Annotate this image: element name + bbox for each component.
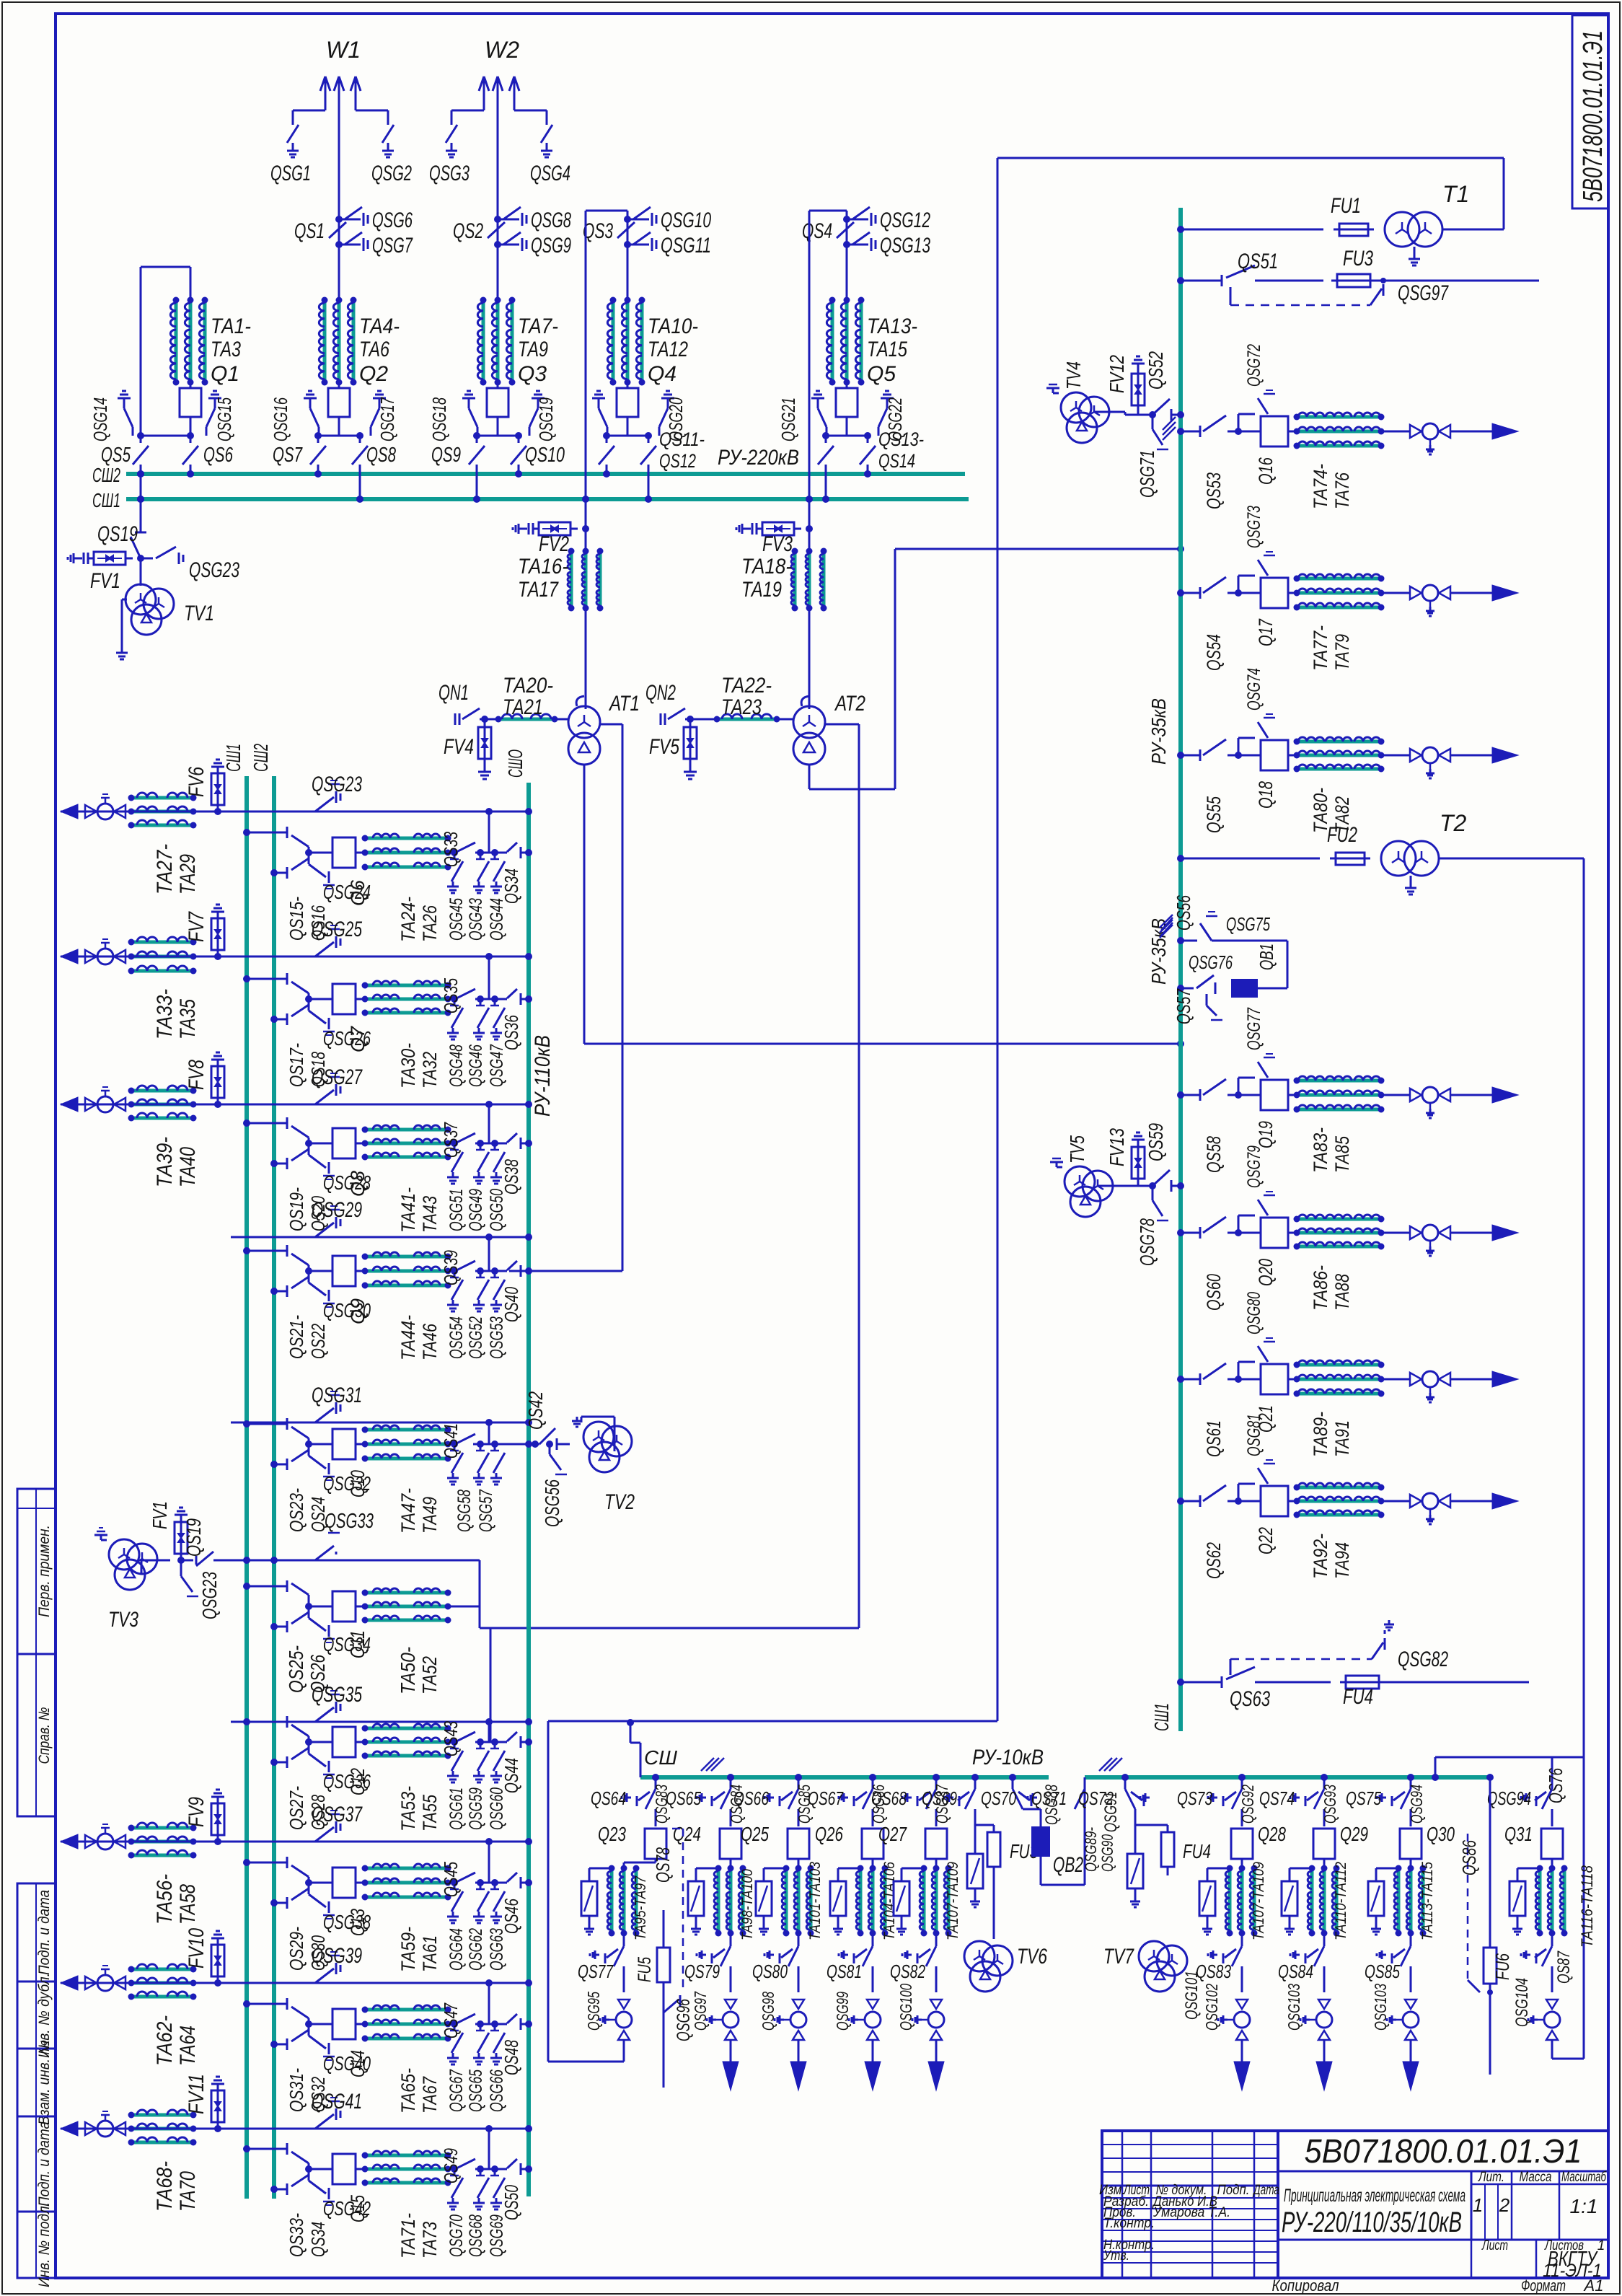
ground switch QSG15 (208, 397, 221, 400)
svg-text:FV11: FV11 (185, 2074, 208, 2114)
feeder 10kV Q25 (795, 1774, 802, 1781)
surge arrester FV12 (1137, 364, 1140, 415)
svg-text:Q6: Q6 (347, 879, 369, 906)
svg-text:QSG72: QSG72 (1244, 344, 1264, 387)
svg-text:QSG97: QSG97 (1398, 281, 1449, 305)
svg-text:ТА6: ТА6 (359, 338, 389, 361)
svg-text:5В071800.01.01.Э1: 5В071800.01.01.Э1 (1305, 2132, 1582, 2170)
svg-text:QS61: QS61 (1203, 1420, 1225, 1457)
branch TV6 FU3 (971, 1774, 979, 1781)
svg-text:QSG93: QSG93 (1321, 1785, 1339, 1824)
ground switch QSG3 (446, 125, 457, 143)
disconnector QS51 (1177, 277, 1184, 284)
svg-text:QSG79: QSG79 (1244, 1145, 1264, 1188)
svg-text:QSG10: QSG10 (661, 208, 711, 232)
svg-text:ТА26: ТА26 (419, 905, 441, 942)
svg-text:QS29-: QS29- (286, 1927, 307, 1971)
svg-text:QSG9: QSG9 (531, 234, 571, 258)
current transformers ТА74-ТА76 (1288, 431, 1297, 433)
sheet number box top-right (1572, 15, 1608, 208)
svg-text:QS46: QS46 (501, 1899, 522, 1934)
outgoing symbol Q31 (1546, 2000, 1558, 2009)
svg-text:Q14: Q14 (347, 2050, 369, 2077)
current transformers ТА24-ТА26 (356, 852, 365, 854)
outgoing symbol (1236, 2000, 1248, 2009)
bus 35kV (1178, 208, 1183, 1731)
svg-text:QS19: QS19 (182, 1518, 205, 1557)
svg-text:QSG54: QSG54 (446, 1316, 467, 1359)
svg-text:Принципиальная электрическая с: Принципиальная электрическая схема (1284, 2186, 1465, 2206)
reactor QB1 (1212, 940, 1287, 942)
svg-text:QSG62: QSG62 (466, 1928, 486, 1971)
wire Q12 to AT2 (490, 1628, 492, 1742)
ground switch QSG11 (627, 244, 649, 246)
disconnectors QS33-/QS34 (243, 2145, 250, 2152)
svg-text:ТА74-: ТА74- (1310, 464, 1331, 509)
current transformers TA18-TA19 (793, 553, 797, 606)
svg-text:СШ2: СШ2 (92, 464, 120, 486)
surge arrester feeder Q30 (1376, 1868, 1398, 1870)
svg-text:FU5: FU5 (635, 1957, 655, 1982)
disconnector QS71 (1075, 1789, 1085, 1809)
disconnector QS52 (1152, 399, 1170, 415)
svg-text:TV6: TV6 (1017, 1945, 1047, 1969)
circuit breaker Q22 (1238, 1500, 1261, 1503)
svg-text:ТА18-: ТА18- (741, 555, 792, 579)
disconnector QS50 (505, 2168, 507, 2170)
svg-text:QS38: QS38 (501, 1159, 522, 1195)
svg-text:QS4: QS4 (802, 219, 832, 243)
transfer line QSG35 (231, 1721, 529, 1723)
svg-text:ТА113-ТА115: ТА113-ТА115 (1419, 1862, 1436, 1940)
svg-text:ТА64: ТА64 (176, 2026, 200, 2066)
svg-text:FV1: FV1 (90, 569, 120, 593)
surge arrester feeder Q26 (838, 1868, 860, 1870)
svg-text:QSG78: QSG78 (1136, 1218, 1158, 1266)
surge arrester feeder Q29 (1290, 1868, 1312, 1870)
svg-text:ТА58: ТА58 (176, 1884, 200, 1925)
svg-text:ТА19: ТА19 (741, 578, 782, 602)
disconnector QS59 (1152, 1170, 1170, 1186)
earthing switches QSG46/QSG47 (475, 998, 505, 1000)
svg-text:QS86: QS86 (1458, 1840, 1480, 1875)
svg-text:Т.контр.: Т.контр. (1103, 2216, 1155, 2231)
earthing switches QSG59/QSG60 (475, 1741, 505, 1743)
svg-text:Подп. и дата: Подп. и дата (36, 2121, 53, 2207)
svg-text:QS15-: QS15- (286, 897, 307, 941)
svg-text:QS87: QS87 (1554, 1950, 1574, 1984)
svg-text:Лит.: Лит. (1477, 2170, 1504, 2185)
wire AT1 35kV to bus (583, 765, 586, 1044)
svg-text:QSG91: QSG91 (1101, 1792, 1121, 1832)
transformer T1 (1385, 212, 1419, 247)
ground switch QSG28 (305, 1140, 312, 1147)
lit massa masshtab (1471, 2183, 1608, 2186)
outgoing arrow (865, 2062, 881, 2090)
disconnector QS87 (1551, 1933, 1553, 1946)
fuse FU2 (1330, 858, 1370, 860)
svg-text:QS40: QS40 (501, 1287, 522, 1322)
surge arrester FV5 (689, 719, 692, 766)
svg-text:QSG100: QSG100 (896, 1984, 915, 2031)
svg-text:ТА101-ТА103: ТА101-ТА103 (807, 1862, 824, 1940)
earthing switches QSG62/QSG63 (475, 1882, 505, 1884)
bay Q5 top link (846, 211, 848, 219)
svg-text:Q10: Q10 (347, 1470, 369, 1497)
line termination (1381, 1232, 1404, 1234)
current transformers TA50-TA52 (356, 1606, 365, 1608)
svg-text:Q18: Q18 (1255, 781, 1277, 809)
surge arrester FV2 (585, 211, 587, 709)
svg-text:Инв. № подл.: Инв. № подл. (36, 2202, 53, 2287)
svg-text:QSG17: QSG17 (376, 397, 398, 441)
margin box Справ. № (17, 1654, 56, 1816)
disconnector QS3 (624, 216, 631, 223)
svg-text:QS74: QS74 (1259, 1787, 1295, 1809)
svg-text:1: 1 (1473, 2194, 1483, 2216)
bus hook left (640, 1743, 642, 1777)
earthing switch QSG64 (451, 1891, 463, 1912)
svg-text:QS80: QS80 (752, 1961, 788, 1982)
ground switch QSG21 (811, 397, 824, 400)
circuit breaker Q8 (332, 1128, 356, 1158)
wire T1 tap (1177, 226, 1184, 233)
svg-text:QSG89-: QSG89- (1082, 1827, 1100, 1872)
earthing switch QN2 (660, 713, 662, 725)
disconnector QS61 (1203, 1363, 1226, 1379)
svg-text:Q17: Q17 (1255, 618, 1277, 646)
transfer line QSG37 (61, 1841, 529, 1843)
svg-text:QS34: QS34 (501, 868, 522, 904)
svg-text:QS68: QS68 (871, 1787, 907, 1809)
earthing switches QSG57 QSG58 row Q10 (475, 1443, 505, 1446)
earthing switch QSG61 (451, 1751, 463, 1771)
surge arrester FV8 (193, 1104, 218, 1106)
svg-text:W1: W1 (326, 37, 361, 63)
ground switch QSG9 (498, 244, 519, 246)
current transformers ТА56-ТА58 (133, 1826, 191, 1830)
ground switch QSG72 (1238, 414, 1240, 431)
voltage transformer TV1 (140, 558, 142, 586)
wire T1 to 10kV (1442, 229, 1504, 231)
ground switch QSG26 (305, 995, 312, 1003)
svg-text:QS82: QS82 (890, 1961, 925, 1982)
feeder 35kV Q21 (1177, 1376, 1184, 1383)
disconnector QS81 (872, 1933, 874, 1946)
disconnector QS80 (798, 1933, 800, 1946)
svg-text:ТА4-: ТА4- (359, 315, 400, 338)
svg-text:ТА107-ТА109: ТА107-ТА109 (945, 1862, 961, 1940)
svg-text:ТА7-: ТА7- (518, 315, 558, 338)
disconnector QS56 with QSG75 (1177, 937, 1184, 944)
earthing switches QSG49/QSG50 (475, 1143, 505, 1145)
disconnector QS66 (788, 1789, 798, 1809)
surge arrester FV13 (1137, 1140, 1140, 1186)
svg-text:QSG25: QSG25 (312, 918, 362, 941)
outgoing symbol (867, 2000, 878, 2009)
svg-text:QS59: QS59 (1145, 1123, 1167, 1161)
disconnector QS84 (1323, 1933, 1326, 1946)
surge arrester feeder Q23 (589, 1868, 612, 1870)
svg-text:QSG4: QSG4 (530, 162, 570, 185)
ground switch QSG27 (315, 1090, 334, 1104)
svg-text:ТА41-: ТА41- (397, 1187, 419, 1233)
disconnector QS13- (826, 435, 868, 437)
svg-text:QS60: QS60 (1203, 1274, 1225, 1311)
svg-text:ТА33-: ТА33- (153, 989, 177, 1039)
svg-text:QSG18: QSG18 (428, 397, 450, 441)
svg-text:QSG103: QSG103 (1284, 1984, 1303, 2031)
earthing switch QSG54 (451, 1280, 463, 1300)
ground switch QSG82 bypass (1230, 1659, 1232, 1675)
disconnector QS37 (448, 1143, 454, 1145)
feeder 35kV Q18 (1177, 752, 1184, 759)
svg-text:ТА21: ТА21 (503, 695, 543, 719)
disconnector QS33 (448, 852, 454, 854)
surge arrester FV11 (193, 2128, 218, 2130)
svg-text:FV5: FV5 (649, 735, 679, 759)
current transformers ТА41-ТА43 (356, 1143, 365, 1145)
svg-text:Утв.: Утв. (1103, 2248, 1129, 2264)
svg-text:QSG103: QSG103 (1371, 1984, 1390, 2031)
feeder 35kV Q20 (1177, 1229, 1184, 1236)
svg-text:QS64: QS64 (591, 1787, 626, 1809)
feeder 10kV Q24 (727, 1774, 734, 1781)
current transformers ТА53-ТА55 (356, 1741, 365, 1743)
transfer line QSG23 (61, 811, 529, 813)
earthing switches QSG52/QSG53 (475, 1270, 505, 1272)
line termination 110kV (61, 949, 78, 964)
svg-text:QS8: QS8 (366, 444, 396, 467)
ground switch QSG22 (881, 397, 894, 400)
feeder Q31 (1542, 1789, 1552, 1809)
svg-text:ТА43: ТА43 (419, 1196, 441, 1233)
svg-text:FV9: FV9 (185, 1797, 208, 1827)
feeder 10kV Q23 (652, 1774, 659, 1781)
svg-text:ТА67: ТА67 (419, 2076, 441, 2114)
svg-text:QS58: QS58 (1203, 1136, 1225, 1173)
svg-text:ТА65-: ТА65- (397, 2068, 419, 2114)
disconnector QS58 (1203, 1079, 1226, 1095)
branch QB2 (1009, 1774, 1016, 1781)
svg-text:QSG92: QSG92 (1238, 1785, 1257, 1824)
svg-text:ТА83-: ТА83- (1310, 1127, 1331, 1173)
line termination (1381, 755, 1404, 757)
svg-text:ТА107-ТА109: ТА107-ТА109 (1251, 1862, 1267, 1940)
ground switch QSG80 (1238, 1362, 1240, 1379)
disconnector QS1 (335, 216, 343, 223)
svg-text:FV8: FV8 (185, 1060, 208, 1090)
svg-text:QSG67: QSG67 (446, 2069, 467, 2112)
current transformers ТА110-ТА112 (1323, 1859, 1326, 1862)
svg-text:QSG80: QSG80 (1244, 1292, 1264, 1334)
svg-text:QSG49: QSG49 (466, 1189, 486, 1231)
outgoing arrow (723, 2062, 739, 2090)
svg-text:ТА98-ТА100: ТА98-ТА100 (739, 1869, 756, 1940)
svg-text:QSG73: QSG73 (1244, 506, 1264, 548)
earthing switch QN1 (454, 713, 457, 725)
disconnector QS12 (648, 436, 650, 443)
surge arrester TV6 (974, 1825, 977, 1854)
svg-text:QS85: QS85 (1365, 1961, 1400, 1982)
svg-text:ТА46: ТА46 (419, 1323, 441, 1360)
svg-text:Масштаб: Масштаб (1561, 2170, 1607, 2185)
svg-text:Q22: Q22 (1255, 1527, 1277, 1554)
branch TV7 FU4 (1121, 1774, 1129, 1781)
svg-text:ТА30-: ТА30- (397, 1043, 419, 1088)
current transformers ТА65-ТА67 (356, 2023, 365, 2026)
svg-text:QN1: QN1 (438, 681, 469, 705)
svg-text:QS34: QS34 (307, 2222, 329, 2257)
voltage transformer TV5 (1065, 1166, 1095, 1197)
ground switch QSG13 (847, 244, 868, 246)
circuit breaker Q25 (788, 1829, 809, 1859)
svg-text:ТА13-: ТА13- (867, 315, 917, 338)
current transformers ТА80-ТА82 (1288, 755, 1297, 757)
svg-text:QSG65: QSG65 (466, 2070, 486, 2112)
svg-text:Лист: Лист (1481, 2238, 1508, 2253)
svg-text:АТ2: АТ2 (834, 692, 865, 716)
svg-text:QSG98: QSG98 (759, 1992, 777, 2031)
svg-text:QS44: QS44 (501, 1758, 522, 1793)
ground switch QSG96 (664, 2000, 679, 2013)
svg-text:Подп. и дата: Подп. и дата (36, 1890, 53, 1975)
ground switch QSG73 (1238, 576, 1240, 593)
svg-text:Справ. №: Справ. № (36, 1707, 53, 1764)
line termination (1381, 592, 1404, 594)
svg-text:QN2: QN2 (645, 681, 676, 705)
bus 10kV section 1 (640, 1775, 1049, 1780)
svg-text:TV2: TV2 (604, 1490, 635, 1514)
feeder 35kV Q16 (1177, 428, 1184, 435)
svg-text:ТА68-: ТА68- (153, 2161, 177, 2212)
autotransformer AT2 (777, 718, 793, 721)
svg-text:РУ-110кВ: РУ-110кВ (531, 1035, 555, 1117)
svg-text:QS63: QS63 (1230, 1687, 1270, 1711)
current transformers ТА77-ТА79 (1288, 592, 1297, 594)
ground switch QSG41 (315, 2114, 334, 2129)
circuit breaker Q27 (925, 1829, 947, 1859)
svg-text:FU2: FU2 (1327, 823, 1357, 847)
margin box Подп. и дата (17, 1883, 56, 1981)
svg-text:FV6: FV6 (185, 767, 208, 797)
svg-text:1: 1 (1597, 2238, 1605, 2253)
feeder 10kV Q30 (1407, 1774, 1414, 1781)
ground switch QSG8 (498, 219, 519, 221)
svg-text:Взам. инв. №: Взам. инв. № (36, 2040, 53, 2125)
svg-text:QS71: QS71 (1031, 1787, 1067, 1809)
svg-text:Q23: Q23 (598, 1823, 626, 1845)
svg-text:Подп.: Подп. (1217, 2183, 1250, 2198)
wire to transfer bus (488, 811, 490, 853)
svg-text:ТА86-: ТА86- (1310, 1265, 1331, 1311)
svg-text:Т2: Т2 (1440, 810, 1467, 836)
svg-text:ТА70: ТА70 (176, 2171, 200, 2212)
feeder 10kV Q28 (1238, 1774, 1246, 1781)
disconnector QS45 (448, 1882, 454, 1884)
svg-text:FU3: FU3 (1343, 247, 1373, 270)
disconnectors QS29-/QS30 (243, 1859, 250, 1866)
svg-text:QS62: QS62 (1203, 1542, 1225, 1579)
svg-text:Q7: Q7 (347, 1026, 369, 1052)
transfer line QSG29 (231, 1236, 529, 1239)
svg-text:ТА32: ТА32 (419, 1052, 441, 1088)
current transformers ТА107-ТА109 (1241, 1859, 1243, 1862)
disconnector QS46 (505, 1882, 507, 1884)
circuit breaker Q12 (332, 1727, 356, 1757)
current transformers ТА98-ТА100 (730, 1859, 732, 1862)
svg-text:QS54: QS54 (1203, 634, 1225, 671)
svg-text:ТА110-ТА112: ТА110-ТА112 (1333, 1862, 1349, 1940)
svg-text:QSG8: QSG8 (531, 208, 571, 232)
earthing switch QSG45 (451, 861, 463, 881)
svg-text:QS25-: QS25- (285, 1645, 307, 1693)
svg-text:Q26: Q26 (815, 1823, 843, 1845)
transfer line QSG31 (231, 1422, 529, 1424)
svg-text:Q28: Q28 (1258, 1823, 1286, 1845)
svg-text:QS67: QS67 (808, 1787, 844, 1809)
svg-text:FU4: FU4 (1343, 1685, 1373, 1709)
voltage transformer TV6 (964, 1941, 995, 1971)
svg-text:Q12: Q12 (347, 1768, 369, 1795)
svg-text:Умарова Т.А.: Умарова Т.А. (1152, 2205, 1230, 2220)
disconnector QS55 (1203, 739, 1226, 755)
ground switch QSG18 (462, 397, 475, 400)
svg-text:5В071800.01.01.Э1: 5В071800.01.01.Э1 (1578, 30, 1608, 202)
svg-text:QS81: QS81 (827, 1961, 862, 1982)
earthing switch QSG67 (451, 2033, 463, 2053)
svg-text:QS27-: QS27- (286, 1786, 307, 1830)
current transformers ТА113-ТА115 (1410, 1859, 1412, 1862)
surge arrester FV1 (78, 558, 82, 560)
circuit breaker Q20 (1238, 1232, 1261, 1234)
wire QS41 to bus (473, 1443, 529, 1446)
wire to transfer bus (488, 956, 490, 999)
disconnector QS44 (505, 1741, 507, 1743)
svg-text:QSG27: QSG27 (312, 1065, 363, 1089)
ground switch QSG16 (304, 397, 317, 400)
disconnector QS77 (623, 1933, 625, 1946)
ground switch QSG23 (137, 555, 144, 562)
ground switch (592, 397, 605, 400)
wire to transfer bus (488, 1104, 490, 1143)
svg-text:QSG57: QSG57 (476, 1489, 496, 1532)
current transformers ТА107-ТА109 (935, 1859, 938, 1862)
svg-text:ТА47-: ТА47- (397, 1488, 419, 1534)
jumper to Q31 (1432, 1774, 1439, 1781)
ground switch QSG29 (315, 1223, 334, 1237)
svg-text:QSG31: QSG31 (312, 1384, 362, 1407)
svg-text:ТА49: ТА49 (419, 1497, 441, 1534)
circuit breaker Q28 (1231, 1829, 1253, 1859)
surge arrester TV7 (1134, 1825, 1137, 1854)
voltage transformer TV2 (583, 1422, 614, 1452)
wire AT2 35kV to bus (808, 765, 811, 789)
svg-text:АТ1: АТ1 (608, 692, 640, 716)
svg-text:QS73: QS73 (1177, 1787, 1212, 1809)
title block (1102, 2131, 1608, 2278)
ground switch QSG39 (315, 1969, 334, 1983)
wire to transfer bus (488, 1237, 490, 1271)
outgoing symbol (1405, 2000, 1416, 2009)
svg-text:QSG96: QSG96 (674, 1999, 694, 2041)
svg-text:QS37: QS37 (440, 1122, 462, 1158)
svg-text:QS70: QS70 (981, 1787, 1016, 1809)
earthing switch QSG70 (451, 2178, 463, 2198)
surge arrester FV4 (484, 719, 486, 766)
circuit breaker Q29 (1313, 1829, 1335, 1859)
svg-text:Q5: Q5 (867, 362, 896, 386)
